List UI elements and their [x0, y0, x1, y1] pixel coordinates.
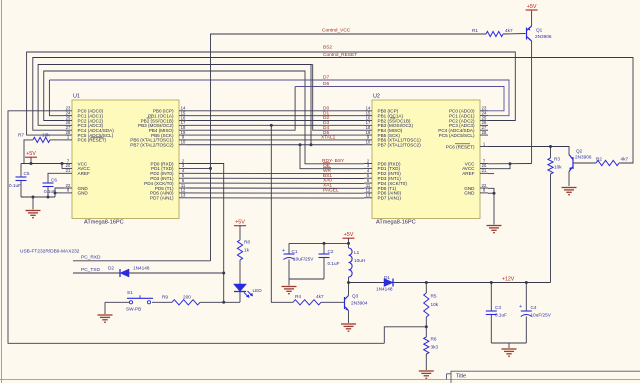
wire D1 to rail — [393, 282, 426, 284]
junction — [299, 143, 302, 146]
pin 23 PC0 (ADC0) — [480, 110, 488, 112]
wire C4 to join — [525, 317, 527, 344]
pin 5 PD3 (INT1) — [364, 177, 372, 179]
svg-text:Q1: Q1 — [536, 28, 543, 33]
pin 16 PB2 (SS/OC1B) — [179, 120, 187, 122]
switch S1 SW-PB — [147, 301, 150, 304]
wire U2 PC6 RESET row — [488, 146, 566, 148]
pin 19 PB5 (SCK) — [179, 134, 187, 136]
svg-text:XTAL1: XTAL1 — [321, 135, 336, 141]
svg-text:PC_RXD: PC_RXD — [81, 254, 101, 260]
wire C1/C2 bottom join — [289, 278, 324, 280]
wire Q2 base to R2 — [573, 162, 596, 164]
diode D1 1N4148 — [384, 279, 393, 287]
svg-text:BS2: BS2 — [323, 45, 332, 51]
wire to R3 — [550, 147, 552, 159]
wire stub — [311, 64, 313, 66]
resistor R6 — [424, 337, 429, 354]
svg-text:AREF: AREF — [462, 171, 474, 176]
pin 5 PD3 (INT1) — [179, 177, 187, 179]
svg-text:PB7 (XTAL2/TOSC2): PB7 (XTAL2/TOSC2) — [378, 143, 422, 148]
wire rail to C5 — [20, 164, 22, 178]
sheet border left — [1, 0, 3, 383]
svg-text:PD7 (AIN1): PD7 (AIN1) — [378, 196, 402, 201]
wire rail to C4 — [525, 283, 527, 312]
wire C2 bottom — [323, 258, 325, 280]
svg-text:R5: R5 — [431, 294, 437, 299]
svg-text:+5V: +5V — [527, 4, 537, 10]
pin 14 PB0 (ICP) — [179, 110, 187, 112]
svg-text:R2: R2 — [596, 157, 602, 162]
svg-text:SW-PB: SW-PB — [126, 307, 141, 312]
diode D2 1N4148 — [120, 269, 129, 277]
pin 9 PB6 (XTAL1/TOSC1) — [179, 139, 187, 141]
pin 6 PD4 (XCK/T0) — [364, 182, 372, 184]
wire LED cathode down — [239, 292, 241, 303]
wire C6 bottom — [47, 187, 49, 198]
junction — [47, 196, 50, 199]
overline SS U2 — [391, 117, 396, 119]
pin 13 PD7 (AIN1) — [364, 197, 372, 199]
pin 24 PC1 (ADC1) — [480, 115, 488, 117]
wire net Control_RESET: U1 PC4 to R2 — [33, 58, 633, 164]
pin 26 PC3 (ADC3) — [64, 124, 72, 126]
pin 7 VCC — [480, 163, 488, 165]
wire R4 to Q3 base — [321, 301, 345, 303]
pin 10 PB7 (XTAL2/TOSC2) — [364, 144, 372, 146]
pin 27 PC4 (ADC4/SDA) — [64, 129, 72, 131]
wire net PC_RXD — [73, 260, 211, 262]
overline RESET U1 — [91, 136, 104, 138]
svg-text:2N3906: 2N3906 — [575, 155, 592, 160]
wire U1 GND pin22 — [55, 188, 64, 197]
svg-text:R9: R9 — [162, 295, 168, 300]
pin 15 PB1 (OC1A) — [179, 115, 187, 117]
svg-text:R1: R1 — [472, 28, 478, 33]
resistor R8 — [237, 240, 242, 260]
wire C3/C4 bottom join — [491, 342, 526, 344]
wire PC0-U1 to R5/R6 divider tap — [8, 111, 384, 343]
svg-text:PD7 (AIN1): PD7 (AIN1) — [150, 196, 174, 201]
wire net XA1 — [187, 187, 364, 189]
svg-text:C4: C4 — [531, 305, 537, 310]
pin 1 PC6 (RESET) — [480, 146, 488, 148]
svg-text:200: 200 — [183, 295, 191, 300]
wire net RDY-BSY: U1 PC2 to U2 PD0 — [44, 71, 364, 164]
wire rail to C3 — [490, 283, 492, 312]
wire net D6: to U2 PC0 — [295, 87, 504, 111]
svg-text:10: 10 — [366, 140, 371, 145]
wire C5 bottom — [20, 181, 22, 198]
ground R6 — [419, 371, 434, 378]
transistor Q1 2N3906 — [527, 26, 532, 41]
overline OE net label — [323, 162, 330, 164]
wire U1 PD7 to U2 PD7 — [187, 197, 364, 199]
junction — [425, 281, 428, 284]
wire +5V to Q1 emitter — [531, 11, 533, 26]
wire R6 to ground — [425, 354, 427, 370]
pin 22 GND — [64, 187, 72, 189]
wire net XTAL1 — [187, 139, 364, 141]
svg-text:3k3: 3k3 — [431, 345, 439, 350]
wire AREF to C6 — [48, 173, 64, 183]
resistor R7 — [33, 137, 50, 142]
wire Q1 collector down to U2 VCC — [531, 41, 533, 164]
svg-text:+5V: +5V — [235, 220, 245, 226]
svg-text:2N3904: 2N3904 — [351, 301, 368, 306]
svg-text:GND: GND — [78, 191, 89, 196]
pin 8 GND — [64, 192, 72, 194]
svg-text:10uF/25V: 10uF/25V — [531, 313, 552, 318]
wire net BS2: U1 PC5 loop to U2 PC2 — [27, 52, 516, 135]
pin 3 PD1 (TXD) — [179, 167, 187, 169]
junction — [222, 301, 225, 304]
svg-text:R6: R6 — [431, 337, 437, 342]
svg-text:C2: C2 — [328, 249, 334, 254]
wire +5V stem — [348, 238, 350, 248]
svg-text:R3: R3 — [554, 157, 560, 162]
wire U1 PB7 to U2 PB7 — [187, 144, 364, 146]
junction — [61, 162, 64, 165]
svg-text:0.1uF: 0.1uF — [9, 183, 21, 188]
wire LED to R9 — [200, 301, 240, 303]
svg-text:R8: R8 — [244, 240, 250, 245]
svg-text:2N3906: 2N3906 — [535, 34, 552, 39]
wire U1 PD0 down to button line — [187, 164, 224, 303]
junction — [32, 196, 35, 199]
resistor R5 — [424, 293, 429, 317]
svg-text:C6: C6 — [51, 178, 57, 183]
wire PC6 to R7 — [50, 139, 64, 141]
capacitor C4 electrolytic — [521, 311, 532, 317]
sheet border bottom — [0, 379, 640, 381]
pin 4 PD2 (INT0) — [364, 172, 372, 174]
wire join to ground — [508, 343, 510, 348]
ground C1 C2 — [282, 287, 297, 294]
svg-text:U1: U1 — [73, 94, 80, 100]
wire U2 GND pin8 — [488, 192, 494, 194]
ground Q2 emitter — [562, 188, 577, 195]
pin 13 PD7 (AIN1) — [179, 197, 187, 199]
svg-text:+12V: +12V — [502, 276, 515, 282]
capacitor C6 — [43, 183, 54, 187]
svg-text:0.1uF: 0.1uF — [495, 313, 507, 318]
svg-text:Q2: Q2 — [576, 149, 583, 154]
wire +5V to R8 — [239, 226, 241, 240]
wire S1 to ground — [105, 301, 129, 303]
pin 23 PC0 (ADC0) — [64, 110, 72, 112]
wire net Control_VCC vertical+top — [211, 34, 487, 261]
svg-text:L1: L1 — [354, 250, 360, 255]
svg-text:1k: 1k — [244, 248, 250, 253]
pin 28 PC5 (ADC5/SCL) — [480, 134, 488, 136]
wire net D6 riser — [187, 87, 295, 131]
pin 11 PD5 (T1) — [364, 187, 372, 189]
junction — [509, 162, 512, 165]
pin 3 PD1 (TXD) — [364, 167, 372, 169]
wire R3 down to +12V rail — [550, 174, 552, 283]
ground U2 — [487, 226, 502, 233]
wire U1 PC3 loop to PB7 row — [38, 65, 311, 145]
svg-text:D7: D7 — [323, 75, 329, 81]
overline RESET U2 — [455, 143, 470, 145]
svg-text:C1: C1 — [292, 249, 298, 254]
svg-text:4k7: 4k7 — [316, 294, 324, 299]
pin 12 PD6 (AIN0) — [364, 192, 372, 194]
svg-text:28: 28 — [482, 130, 487, 135]
svg-text:21: 21 — [482, 168, 487, 173]
wire net D3 — [187, 124, 364, 126]
pin 26 PC3 (ADC3) — [480, 124, 488, 126]
wire VCC rail U1 — [21, 163, 64, 165]
wire R5 to R6 — [425, 317, 427, 337]
transistor Q3 2N3904 — [345, 296, 349, 311]
IC U1 ATmega8 body — [72, 100, 179, 219]
pin 15 PB1 (OC1A) — [364, 115, 372, 117]
wire S1 ground drop — [104, 302, 106, 314]
svg-text:C5: C5 — [24, 171, 30, 176]
svg-text:4k7: 4k7 — [621, 157, 629, 162]
wire U1 GND pin8 — [55, 192, 64, 194]
wire +12V rail — [349, 282, 551, 284]
wire C1 bottom — [288, 260, 290, 280]
wire Q3 collector — [348, 283, 350, 296]
pin 22 GND — [480, 187, 488, 189]
svg-text:10uH: 10uH — [354, 258, 365, 263]
pin 18 PB4 (MISO) — [179, 129, 187, 131]
wire C3 to join — [490, 315, 492, 344]
wire AVCC join U1 — [62, 164, 64, 169]
junction — [310, 143, 313, 146]
capacitor C2 — [319, 254, 330, 258]
wire net D7: to U2 PC1 — [49, 80, 509, 116]
wire to C1 — [288, 243, 290, 254]
capacitor C3 — [486, 311, 497, 315]
wire net BS1 — [187, 177, 364, 179]
wire net D4: riser to U2 PB4 — [313, 65, 364, 131]
svg-text:13: 13 — [366, 193, 371, 198]
wire U2 VCC row — [488, 163, 532, 165]
svg-text:10k: 10k — [554, 165, 562, 170]
pin 1 PC6 (RESET) — [64, 139, 72, 141]
pin 2 PD0 (RXD) — [364, 163, 372, 165]
svg-text:1N4148: 1N4148 — [376, 287, 393, 292]
pin 28 PC5 (ADC5/SCL) — [64, 134, 72, 136]
svg-text:PC6 (RESET): PC6 (RESET) — [78, 138, 107, 143]
wire net D0 — [187, 110, 364, 112]
svg-text:+: + — [519, 304, 522, 310]
pin 2 PD0 (RXD) — [179, 163, 187, 165]
wire Q2 collector — [566, 147, 569, 155]
junction — [209, 167, 212, 170]
wire U2 AVCC join — [488, 164, 510, 169]
wire R7 to +5V rail — [24, 140, 33, 164]
svg-text:Control_VCC: Control_VCC — [322, 28, 351, 34]
pin 25 PC2 (ADC2) — [480, 120, 488, 122]
wire U2 GND pin22 — [488, 188, 494, 224]
wire R9 to S1 — [152, 301, 172, 303]
overline WR net label — [323, 167, 331, 169]
svg-text:D4: D4 — [323, 125, 329, 131]
svg-text:10uF/25V: 10uF/25V — [293, 257, 314, 262]
junction — [493, 192, 496, 195]
svg-text:Control_RESET: Control_RESET — [323, 52, 357, 58]
svg-text:+: + — [282, 248, 285, 254]
pin 7 VCC — [64, 163, 72, 165]
junction — [54, 191, 57, 194]
LED — [234, 284, 247, 292]
pin 6 PD4 (XCK/T0) — [179, 182, 187, 184]
svg-text:C3: C3 — [495, 305, 501, 310]
svg-text:Title: Title — [456, 374, 466, 380]
junction — [347, 281, 350, 284]
pin 4 PD2 (INT0) — [179, 172, 187, 174]
wire R8 to LED — [239, 260, 241, 284]
wire net PC_TXD left — [73, 272, 120, 274]
pin 20 AVCC — [480, 167, 488, 169]
wire to U1 ground symbol — [32, 197, 34, 210]
wire net OE: to U2 PD1 — [300, 145, 364, 169]
ground Q3 — [341, 324, 356, 331]
svg-text:0.1uF: 0.1uF — [328, 261, 340, 266]
ground U1 — [26, 211, 41, 218]
pin 25 PC2 (ADC2) — [64, 120, 72, 122]
wire L1 to junction — [348, 277, 350, 283]
resistor R9 — [172, 300, 200, 305]
svg-text:R7: R7 — [18, 132, 24, 137]
svg-text:USB-FT232R/DB9-MAX232: USB-FT232R/DB9-MAX232 — [20, 248, 80, 254]
capacitor C1 electrolytic — [284, 254, 295, 260]
svg-text:13: 13 — [181, 193, 186, 198]
junction — [425, 325, 428, 328]
wire net D5 — [187, 134, 364, 136]
svg-text:10k: 10k — [431, 302, 439, 307]
capacitor C5 — [16, 177, 27, 181]
svg-text:PC_TXD: PC_TXD — [81, 267, 100, 273]
pin 9 PB6 (XTAL1/TOSC1) — [364, 139, 372, 141]
svg-text:ATmega8-16PC: ATmega8-16PC — [84, 220, 124, 226]
wire Q3 emitter — [348, 311, 350, 324]
svg-text:10: 10 — [181, 140, 186, 145]
wire to C2 — [323, 243, 325, 254]
wire ground rail U1 — [21, 196, 55, 198]
wire net D1 — [187, 115, 364, 117]
svg-text:U2: U2 — [373, 94, 380, 100]
pin 27 PC4 (ADC4/SDA) — [480, 129, 488, 131]
pin 17 PB3 (MOSI/OC2) — [364, 124, 372, 126]
pin 20 AVCC — [64, 167, 72, 169]
pin 21 AREF — [480, 172, 488, 174]
svg-text:21: 21 — [66, 168, 71, 173]
svg-text:LED: LED — [253, 288, 263, 293]
svg-text:D1: D1 — [384, 275, 390, 280]
wire divider tap riser — [384, 327, 426, 344]
resistor R2 — [596, 160, 619, 165]
node — [312, 64, 314, 66]
IC U2 ATmega8 body — [372, 100, 480, 219]
svg-text:PB7 (XTAL2/TOSC2): PB7 (XTAL2/TOSC2) — [130, 143, 174, 148]
svg-text:D6: D6 — [323, 81, 329, 87]
resistor R1 — [486, 31, 503, 36]
wire +5V stem U1 — [30, 157, 32, 163]
pin 21 AREF — [64, 172, 72, 174]
ground C3 C4 — [502, 349, 517, 356]
pin 24 PC1 (ADC1) — [64, 115, 72, 117]
wire U1 PB3 down to R4 — [271, 125, 293, 302]
svg-text:4k7: 4k7 — [505, 28, 513, 33]
svg-text:Q3: Q3 — [352, 294, 359, 299]
pin 16 PB2 (SS/OC1B) — [364, 120, 372, 122]
pin 8 GND — [480, 192, 488, 194]
overline SS U1 — [147, 117, 152, 119]
resistor R4 — [293, 300, 321, 305]
wire PC_TXD to PD0 riser — [129, 272, 224, 274]
wire net D7 left riser — [49, 80, 64, 116]
wire R1 to Q1 base — [503, 33, 526, 36]
pin 19 PB5 (SCK) — [364, 134, 372, 136]
svg-text:ATmega8-16PC: ATmega8-16PC — [376, 220, 416, 226]
junction — [347, 242, 350, 245]
svg-text:PC6 (RESET): PC6 (RESET) — [446, 144, 475, 149]
pin 17 PB3 (MOSI/OC2) — [179, 124, 187, 126]
junction — [525, 281, 528, 284]
wire U2 AREF stub — [488, 173, 494, 175]
wire net XA0 — [187, 182, 364, 184]
svg-text:PC5 (ADC5/SCL): PC5 (ADC5/SCL) — [439, 133, 475, 138]
wire to ground boost — [288, 279, 290, 286]
wire +5V rail boost — [289, 242, 349, 244]
pin 18 PB4 (MISO) — [364, 129, 372, 131]
wire rail to R5 — [425, 283, 427, 294]
pin 11 PD5 (T1) — [179, 187, 187, 189]
pin 12 PD6 (AIN0) — [179, 192, 187, 194]
wire junction to D1 — [349, 282, 385, 284]
svg-text:D2: D2 — [108, 266, 114, 271]
title block — [447, 371, 640, 383]
svg-text:+5V: +5V — [344, 232, 354, 238]
junction — [222, 272, 225, 275]
wire Q2 emitter to ground — [568, 172, 570, 187]
wire U1 PD1 stub to Control_VCC — [187, 167, 211, 169]
wire net PAGEL — [187, 192, 364, 194]
junction — [270, 124, 273, 127]
svg-text:AREF: AREF — [78, 171, 90, 176]
resistor R3 — [548, 158, 553, 174]
junction — [30, 162, 33, 165]
inductor L1 10uH — [349, 248, 353, 277]
svg-text:10k: 10k — [42, 132, 50, 137]
wire net D2 — [187, 120, 364, 122]
svg-text:+5V: +5V — [26, 151, 36, 157]
junction — [490, 281, 493, 284]
ground S1 — [98, 315, 113, 322]
junction — [549, 145, 552, 148]
svg-text:PAGEL: PAGEL — [323, 187, 339, 193]
svg-text:1N4148: 1N4148 — [133, 266, 150, 271]
svg-text:R4: R4 — [295, 294, 301, 299]
wire net WR — [187, 172, 364, 174]
pin 10 PB7 (XTAL2/TOSC2) — [179, 144, 187, 146]
svg-text:GND: GND — [464, 191, 475, 196]
pin 14 PB0 (ICP) — [364, 110, 372, 112]
svg-text:S1: S1 — [127, 290, 133, 295]
junction — [323, 242, 326, 245]
